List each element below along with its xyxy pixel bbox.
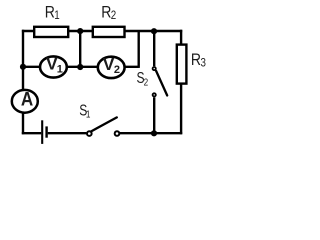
node: bottom bus / S2 branch [151, 130, 157, 136]
switch S1 left contact [87, 131, 92, 136]
switch S1 blade [91, 117, 116, 131]
node: R1-R2 junction [77, 28, 83, 34]
svg-text:1: 1 [86, 107, 91, 119]
label S1 [79, 101, 90, 120]
switch S2 lower contact [153, 93, 156, 96]
wire: bottom left segment (corner to battery long plate) [22, 132, 41, 134]
switch S2 blade [156, 71, 167, 96]
switch S2 upper contact [153, 67, 156, 70]
voltmeter V1 [40, 56, 67, 77]
svg-text:2: 2 [114, 64, 120, 76]
node: voltmeter bus / middle branch [77, 64, 83, 70]
svg-text:1: 1 [54, 9, 59, 22]
label R3 [191, 51, 206, 70]
svg-text:2: 2 [111, 9, 116, 22]
svg-text:3: 3 [201, 57, 206, 70]
wire: V2 right riser up to top bus [137, 31, 139, 68]
battery long plate [41, 120, 43, 144]
wire: bottom segment battery to S1 left contact [48, 132, 87, 134]
label S2 [137, 69, 149, 88]
wire: S2 upper stub [153, 31, 155, 66]
wire: top horizontal bus [22, 30, 182, 32]
svg-text:R: R [191, 51, 201, 69]
label R1 [45, 3, 60, 22]
ammeter A [12, 90, 38, 113]
wire: middle branch from R1-R2 node down to voltmeter bus [79, 31, 81, 67]
node: top bus / S2 branch [151, 28, 157, 34]
svg-text:R: R [101, 3, 111, 21]
label R2 [101, 3, 116, 22]
wire: voltmeter bus horizontal [23, 66, 139, 68]
svg-text:R: R [45, 3, 55, 21]
resistor R2 [93, 27, 125, 37]
svg-text:2: 2 [144, 75, 149, 87]
svg-text:1: 1 [57, 63, 63, 75]
wire: bottom segment S1 right contact to right corner [120, 132, 182, 134]
svg-text:A: A [21, 89, 33, 110]
wire: left vertical (through ammeter position) [22, 30, 24, 135]
wire: S2 lower stub down to bottom bus [153, 97, 155, 133]
battery short plate [45, 126, 47, 137]
resistor R1 [34, 27, 68, 37]
resistor R3 [177, 45, 187, 84]
voltmeter V2 [98, 57, 125, 78]
node: left bus / V1 branch [20, 64, 26, 70]
switch S1 right contact [115, 131, 120, 136]
wire: right vertical (through R3 position) [180, 30, 182, 135]
